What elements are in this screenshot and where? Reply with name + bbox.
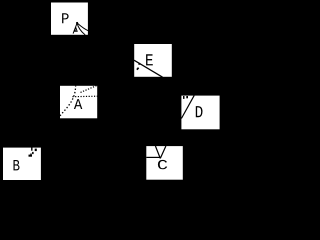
dotted-edge tick 1 at top of D: [183, 96, 185, 99]
node P label: [62, 13, 69, 23]
wire: dotted edge from A up-right to top-right corner: [81, 85, 98, 92]
node C box: [146, 146, 183, 180]
node P box: [51, 3, 88, 35]
wire: edge from junction down-left toward A: [73, 23, 77, 34]
arrowhead left wing pointing down at C: [155, 146, 160, 158]
arrowhead right wing pointing down at C: [160, 146, 166, 158]
thick blob on diagonal in E: [138, 63, 140, 65]
node B label: [14, 160, 20, 170]
node B box: [3, 148, 41, 180]
arrowhead blob in B: [29, 155, 33, 157]
node C label: [158, 160, 167, 169]
wire: edge from junction down-right toward E (exits right edge): [77, 23, 88, 31]
dotted-edge small dot in B: [32, 152, 34, 154]
wire: edge from junction down toward bottom edge: [77, 23, 85, 35]
arrowhead blob tail in B: [30, 154, 31, 155]
node E label: [146, 54, 153, 65]
node P: junction point of edges at bottom-right: [76, 22, 78, 24]
arrowhead in P pointing up at junction: [74, 28, 77, 32]
node D label: [196, 106, 203, 117]
node A box: [60, 86, 97, 119]
node D box: [181, 96, 219, 130]
dotted-edge square dot in B: [35, 149, 37, 152]
wire: edge P-to-C diagonal through E: [134, 60, 163, 77]
wire: steep diagonal edge in D: [181, 95, 194, 118]
node A label: [74, 99, 82, 109]
wire: dotted curved edge B-to-P passing through A (curves from left edge up to vertical): [60, 86, 76, 116]
wire: dotted horizontal edge from A toward D: [72, 95, 97, 98]
dot inside arrowhead in P: [75, 30, 76, 31]
dotted-edge tick 2 at top of D: [186, 96, 188, 98]
arrowhead dash below diagonal in E: [137, 68, 139, 70]
node E box: [134, 44, 172, 77]
wire: horizontal edge from B entering C: [146, 156, 160, 158]
dotted-edge dash (vertical) at top-right of B: [31, 148, 32, 151]
